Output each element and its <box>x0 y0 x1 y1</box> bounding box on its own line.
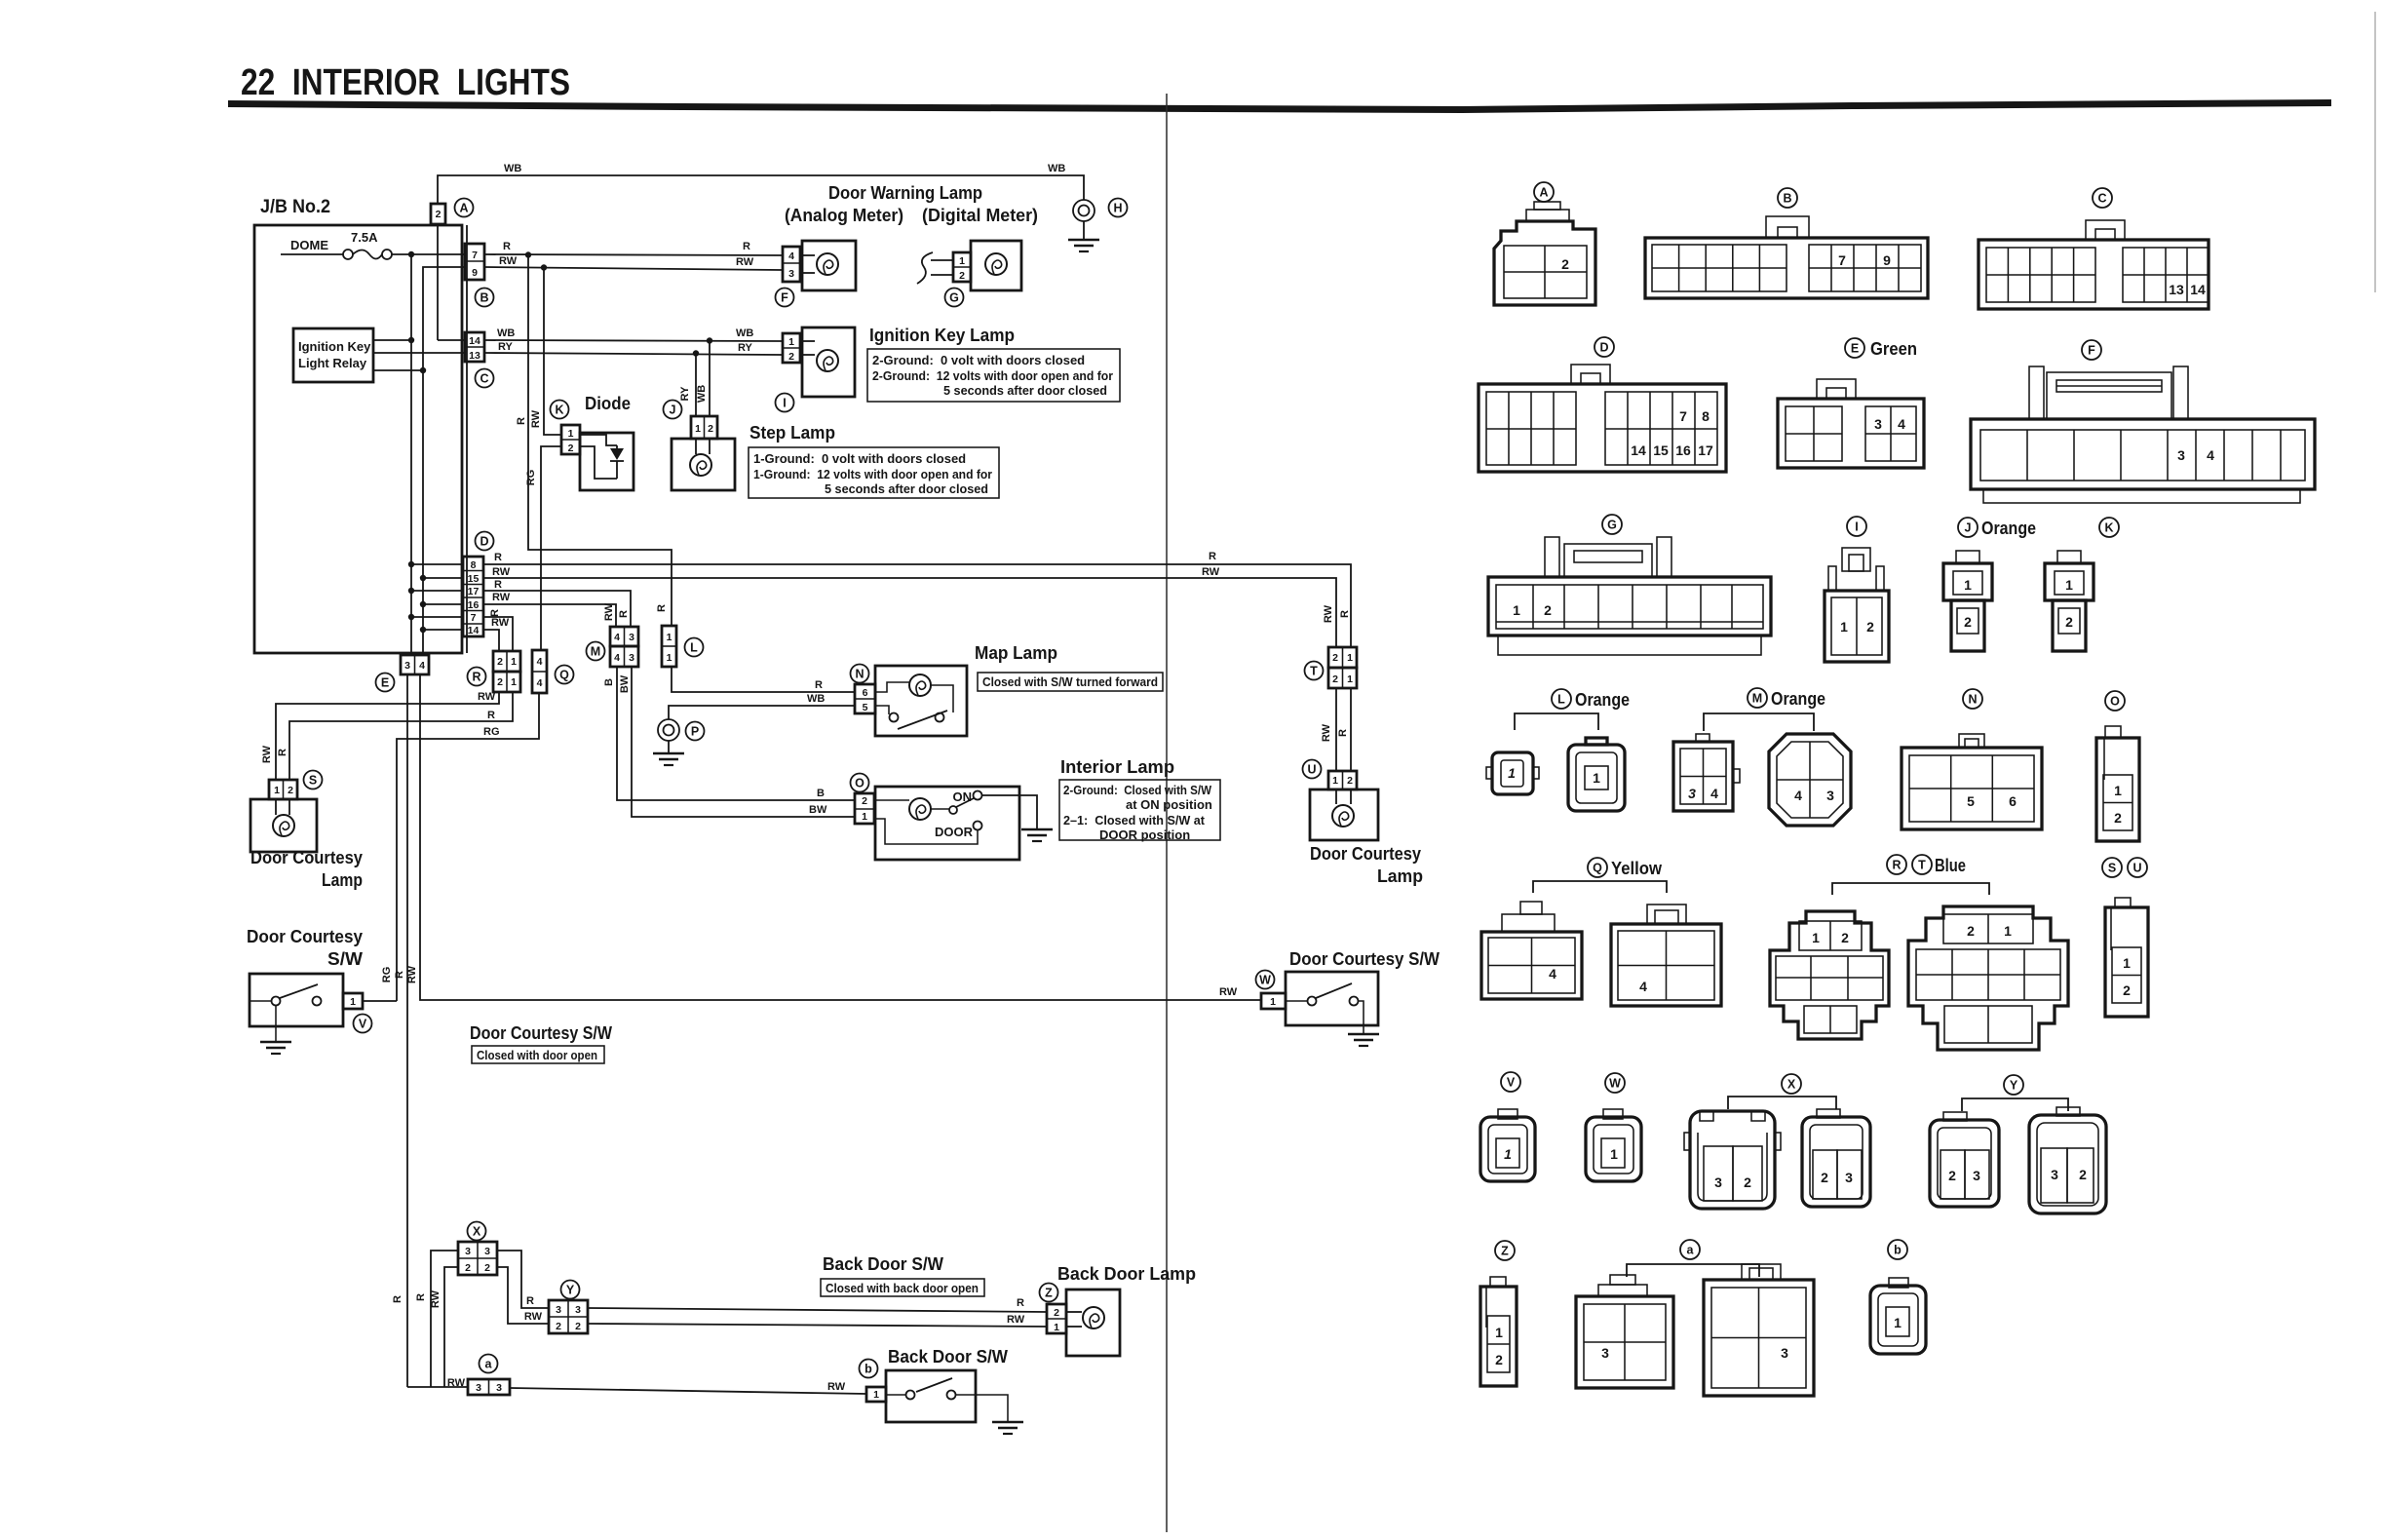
connector O (2/1) <box>851 774 875 825</box>
svg-text:S/W: S/W <box>327 949 363 969</box>
pinout X pair <box>1684 1074 1870 1209</box>
connector b pin 1 <box>860 1360 887 1403</box>
wire RW vertical from E4 turning to W switch <box>420 674 1261 1000</box>
pinout L pair <box>1486 689 1630 811</box>
svg-text:Diode: Diode <box>585 394 631 413</box>
pinout J <box>1943 518 2036 651</box>
ignition key lamp bulb box <box>800 327 855 397</box>
svg-text:1: 1 <box>511 676 517 688</box>
svg-text:4: 4 <box>1549 966 1556 982</box>
svg-text:1: 1 <box>1504 1146 1512 1162</box>
svg-text:J/B No.2: J/B No.2 <box>260 197 330 217</box>
svg-text:(Analog Meter): (Analog Meter) <box>785 206 903 225</box>
svg-text:1: 1 <box>1332 775 1338 787</box>
svg-text:22 INTERIOR LIGHTS: 22 INTERIOR LIGHTS <box>241 62 570 103</box>
svg-text:3: 3 <box>556 1304 561 1316</box>
svg-text:RW: RW <box>1323 604 1334 623</box>
svg-text:13: 13 <box>2169 282 2184 297</box>
svg-text:Back Door Lamp: Back Door Lamp <box>1057 1264 1196 1284</box>
svg-text:R: R <box>392 1295 403 1303</box>
svg-text:Y: Y <box>2010 1079 2018 1093</box>
pinout B <box>1645 188 1928 298</box>
svg-text:16: 16 <box>468 599 480 611</box>
wire vertical bus 2 inside J/B <box>423 267 465 655</box>
pinout O <box>2096 691 2139 841</box>
svg-text:2: 2 <box>1744 1174 1751 1190</box>
svg-text:RW: RW <box>447 1377 466 1389</box>
svg-text:T: T <box>1310 665 1318 678</box>
svg-text:Door Courtesy S/W: Door Courtesy S/W <box>1289 949 1440 969</box>
svg-text:2: 2 <box>1544 602 1552 618</box>
pinout b <box>1870 1240 1926 1354</box>
pinout M pair <box>1673 688 1851 826</box>
svg-text:C: C <box>2097 192 2106 206</box>
svg-text:3: 3 <box>404 660 410 672</box>
svg-text:I: I <box>783 397 786 410</box>
pinout C <box>1979 188 2209 309</box>
svg-text:Orange: Orange <box>1981 519 2036 538</box>
svg-text:Closed with S/W turned forward: Closed with S/W turned forward <box>982 674 1158 689</box>
wire X2 right to Y2 <box>497 1267 549 1324</box>
svg-text:R: R <box>487 710 495 721</box>
svg-text:2: 2 <box>288 785 293 796</box>
svg-text:1: 1 <box>511 656 517 668</box>
door courtesy lamp (left) <box>250 799 363 890</box>
svg-text:K: K <box>2104 521 2113 535</box>
svg-text:RW: RW <box>524 1311 543 1323</box>
svg-text:1-Ground: 12 volts with door: 1-Ground: 12 volts with door open and fo… <box>753 467 992 481</box>
wire RY from C13 to I2 <box>484 353 783 355</box>
svg-text:R: R <box>472 671 480 684</box>
svg-text:9: 9 <box>472 267 478 279</box>
svg-text:1: 1 <box>1894 1315 1902 1330</box>
svg-text:2: 2 <box>1561 256 1569 272</box>
info box step lamp <box>749 447 999 498</box>
wire R from D7 to R-connector <box>483 617 513 651</box>
svg-text:R: R <box>415 1293 427 1301</box>
svg-text:L: L <box>1557 693 1565 707</box>
diode D1 <box>580 433 634 490</box>
svg-text:R: R <box>494 579 502 591</box>
svg-text:2: 2 <box>1332 652 1338 664</box>
wire R from L to N6 <box>672 667 855 692</box>
svg-text:R: R <box>1337 729 1349 737</box>
svg-text:2: 2 <box>1964 614 1972 630</box>
connector U (1/2) <box>1303 760 1358 790</box>
wire R down to L connector <box>528 254 672 626</box>
svg-text:3: 3 <box>476 1382 481 1394</box>
connector N (6/5) <box>851 665 876 714</box>
node R branch <box>525 251 531 257</box>
svg-text:1: 1 <box>959 255 965 267</box>
svg-text:J: J <box>670 404 676 417</box>
connector T (2x 2/1) <box>1305 647 1358 688</box>
svg-text:R: R <box>1892 859 1901 872</box>
node RY branch to J <box>693 350 699 356</box>
svg-text:RW: RW <box>1202 566 1220 578</box>
svg-text:3: 3 <box>465 1246 471 1257</box>
svg-text:2: 2 <box>497 676 503 688</box>
svg-text:X: X <box>473 1225 481 1239</box>
svg-text:M: M <box>591 645 600 659</box>
svg-text:Closed with door open: Closed with door open <box>477 1048 597 1062</box>
svg-text:2-Ground: 0 volt with doors c: 2-Ground: 0 volt with doors closed <box>872 353 1085 367</box>
svg-text:B: B <box>480 291 488 305</box>
svg-text:7: 7 <box>1679 408 1687 424</box>
wire break brace at G <box>917 252 933 284</box>
node D8 stub <box>411 563 463 565</box>
svg-text:4: 4 <box>614 632 620 643</box>
info box interior lamp <box>1059 780 1220 842</box>
wire vertical bus 1 inside J/B <box>410 254 412 655</box>
wire WB from A down to C row 14 <box>437 224 439 340</box>
back door lamp bulb box <box>1066 1290 1120 1356</box>
svg-text:Lamp: Lamp <box>1377 866 1423 886</box>
wire WB from A to H ground <box>438 175 1084 204</box>
svg-text:14: 14 <box>468 625 480 636</box>
svg-text:2: 2 <box>2065 614 2073 630</box>
wire R from R-conn to S2 <box>289 692 513 780</box>
wire R vertical from E3 to back-door run <box>406 674 408 1387</box>
svg-text:BW: BW <box>809 804 827 816</box>
svg-text:3: 3 <box>2177 447 2185 463</box>
pinout K <box>2045 518 2119 651</box>
svg-text:2: 2 <box>1967 923 1975 939</box>
svg-text:F: F <box>2088 344 2095 358</box>
svg-text:RW: RW <box>499 255 518 267</box>
svg-text:1: 1 <box>1964 577 1972 593</box>
svg-text:WB: WB <box>807 693 825 705</box>
svg-text:RW: RW <box>430 1290 442 1308</box>
svg-text:4: 4 <box>1710 786 1718 801</box>
svg-text:Z: Z <box>1045 1287 1053 1300</box>
svg-text:1-Ground: 0 volt with doors c: 1-Ground: 0 volt with doors closed <box>753 451 966 466</box>
door warning lamp (analog) <box>800 241 856 290</box>
junction block J/B No.2 <box>254 197 467 653</box>
back door switch <box>886 1370 1008 1422</box>
wire RW from B9 to F3 <box>484 267 783 270</box>
node dome-fuse junction <box>408 251 414 257</box>
svg-text:2: 2 <box>1332 674 1338 685</box>
svg-text:Green: Green <box>1870 339 1917 359</box>
svg-text:E: E <box>381 676 389 690</box>
svg-text:1: 1 <box>568 428 574 440</box>
svg-text:Z: Z <box>1501 1245 1509 1258</box>
pinout V <box>1480 1072 1535 1181</box>
connector W pin 1 <box>1256 971 1287 1010</box>
pinout D <box>1479 337 1726 472</box>
svg-text:4: 4 <box>1794 788 1802 803</box>
svg-text:14: 14 <box>1631 443 1646 458</box>
svg-text:R: R <box>394 971 405 979</box>
connector Y (3/2 | 3/2) <box>549 1281 588 1334</box>
node D17 stub <box>411 590 463 592</box>
ground below W switch <box>1348 1034 1379 1046</box>
svg-text:(Digital Meter): (Digital Meter) <box>922 206 1038 225</box>
svg-text:2: 2 <box>575 1321 581 1332</box>
svg-text:DOME: DOME <box>290 238 328 252</box>
connector E (3/4) <box>376 655 430 692</box>
svg-text:b: b <box>864 1363 872 1376</box>
node WB branch to J <box>707 337 712 343</box>
ground H <box>1068 199 1128 252</box>
svg-text:1: 1 <box>788 336 794 348</box>
svg-text:1: 1 <box>2114 783 2122 798</box>
svg-text:WB: WB <box>696 385 708 403</box>
svg-text:15: 15 <box>468 573 480 585</box>
svg-text:1: 1 <box>1347 674 1353 685</box>
node D16 stub <box>423 603 463 605</box>
svg-text:a: a <box>1687 1244 1695 1257</box>
svg-text:1: 1 <box>1495 1325 1503 1340</box>
svg-text:RW: RW <box>478 691 496 703</box>
svg-text:B: B <box>1783 192 1791 206</box>
svg-text:1: 1 <box>1812 930 1820 945</box>
connector X (3/2 | 3/2) <box>458 1222 497 1276</box>
node D7 stub <box>411 616 463 618</box>
connector B (pins 7/9) <box>465 244 494 307</box>
svg-text:WB: WB <box>497 327 515 339</box>
svg-text:Back Door S/W: Back Door S/W <box>888 1347 1008 1367</box>
node RW branch <box>541 264 547 270</box>
connector J (1/2) <box>664 401 718 440</box>
pinout A <box>1494 182 1595 305</box>
pinout R T pair <box>1770 855 2068 1050</box>
svg-text:3: 3 <box>1781 1345 1788 1361</box>
svg-text:17: 17 <box>468 586 480 597</box>
svg-text:R: R <box>656 604 668 612</box>
connector V pin 1 <box>343 993 372 1033</box>
svg-text:W: W <box>1609 1077 1621 1091</box>
wires T to U <box>1335 688 1337 771</box>
svg-text:2: 2 <box>1347 775 1353 787</box>
svg-text:R: R <box>815 679 823 691</box>
svg-text:RY: RY <box>498 341 514 353</box>
ground P <box>653 719 705 765</box>
svg-text:RW: RW <box>261 745 273 763</box>
svg-text:WB: WB <box>504 163 521 174</box>
svg-text:4: 4 <box>1898 416 1905 432</box>
svg-text:3: 3 <box>629 632 634 643</box>
svg-text:R: R <box>516 417 527 425</box>
wire horizontal run to connector a <box>407 1386 468 1388</box>
svg-text:Door Warning Lamp: Door Warning Lamp <box>828 183 982 203</box>
svg-text:A: A <box>1539 186 1548 200</box>
connector K (1/2) <box>551 401 581 455</box>
svg-text:RG: RG <box>381 967 393 983</box>
svg-text:1: 1 <box>1593 770 1600 786</box>
connector Z (2/1) <box>1040 1284 1067 1334</box>
svg-text:RW: RW <box>492 566 511 578</box>
svg-text:2: 2 <box>708 423 713 435</box>
svg-text:17: 17 <box>1698 443 1713 458</box>
svg-text:R: R <box>526 1295 534 1307</box>
svg-text:RW: RW <box>827 1381 846 1393</box>
wire RG from Q down and left <box>397 693 539 1001</box>
connector Q (4/4) <box>532 650 574 693</box>
svg-text:D: D <box>480 535 488 549</box>
fuse DOME 7.5A <box>281 230 465 259</box>
svg-text:2: 2 <box>788 351 794 363</box>
svg-text:Q: Q <box>559 669 569 682</box>
svg-text:RW: RW <box>603 602 615 621</box>
svg-text:1: 1 <box>1840 619 1848 635</box>
svg-text:9: 9 <box>1883 252 1891 268</box>
svg-text:1: 1 <box>667 632 672 643</box>
wire R from B7 to F4 <box>484 254 783 255</box>
svg-text:8: 8 <box>1702 408 1710 424</box>
svg-text:BW: BW <box>619 674 631 693</box>
wire RW from Y to Z1 <box>588 1324 1047 1327</box>
connector I (1/2) <box>776 333 801 412</box>
connector a (3|3) <box>447 1355 510 1396</box>
svg-text:4: 4 <box>788 250 794 262</box>
svg-text:X: X <box>1787 1078 1796 1092</box>
svg-text:Ignition Key: Ignition Key <box>298 339 371 354</box>
svg-text:Map Lamp: Map Lamp <box>975 643 1057 663</box>
door warning lamp (digital) <box>971 241 1021 290</box>
svg-text:3: 3 <box>1688 786 1696 801</box>
title rule <box>228 99 2331 113</box>
svg-text:RG: RG <box>483 726 500 738</box>
map lamp box with switch <box>875 666 967 736</box>
svg-text:Y: Y <box>566 1284 575 1297</box>
svg-text:I: I <box>1855 520 1858 534</box>
svg-text:at ON position: at ON position <box>1126 797 1212 812</box>
interior lamp box with ON/DOOR switch <box>875 787 1019 860</box>
connector F (4/3) <box>776 247 801 307</box>
svg-text:5: 5 <box>1967 793 1975 809</box>
svg-text:7: 7 <box>471 612 477 624</box>
svg-text:RW: RW <box>492 592 511 603</box>
svg-text:b: b <box>1894 1244 1902 1257</box>
svg-text:Interior Lamp: Interior Lamp <box>1060 757 1174 777</box>
svg-text:4: 4 <box>1639 979 1647 994</box>
svg-text:G: G <box>1607 519 1617 532</box>
svg-text:DOOR: DOOR <box>935 825 974 839</box>
svg-text:2: 2 <box>556 1321 561 1332</box>
svg-text:7.5A: 7.5A <box>351 230 378 245</box>
pinout W <box>1586 1073 1641 1181</box>
svg-text:5 seconds after door closed: 5 seconds after door closed <box>943 383 1107 398</box>
svg-text:1: 1 <box>667 652 672 664</box>
svg-text:a: a <box>485 1358 493 1371</box>
page fold line <box>1166 94 1168 1532</box>
svg-text:6: 6 <box>2009 793 2017 809</box>
wire B from M4 to O2 <box>617 667 855 800</box>
svg-text:3: 3 <box>788 268 794 280</box>
svg-text:3: 3 <box>2051 1167 2058 1182</box>
svg-text:N: N <box>855 668 864 681</box>
wire WB from P to N5 <box>669 706 855 719</box>
svg-text:Door Courtesy: Door Courtesy <box>250 848 363 867</box>
svg-text:4: 4 <box>614 652 620 664</box>
wire RW from D14 to R-connector <box>483 630 499 651</box>
svg-text:2: 2 <box>1841 930 1849 945</box>
door courtesy switch (left) <box>250 974 343 1042</box>
svg-text:R: R <box>743 241 750 252</box>
svg-text:7: 7 <box>472 250 478 261</box>
svg-text:2: 2 <box>436 209 442 220</box>
svg-text:4: 4 <box>537 677 543 689</box>
svg-text:3: 3 <box>629 652 634 664</box>
wire RG from K2 down to Q <box>541 446 561 650</box>
svg-text:13: 13 <box>469 350 480 362</box>
svg-text:1: 1 <box>350 996 356 1008</box>
wire BW from M3 to O1 <box>632 667 855 817</box>
svg-text:2: 2 <box>1821 1170 1828 1185</box>
wire from interior lamp ON to ground <box>982 795 1037 829</box>
svg-text:M: M <box>1752 692 1762 706</box>
svg-text:Back Door S/W: Back Door S/W <box>823 1254 943 1274</box>
svg-text:Door Courtesy: Door Courtesy <box>247 927 363 946</box>
svg-text:WB: WB <box>736 327 753 339</box>
connector C (pins 14/13) <box>465 332 494 388</box>
svg-text:DOOR position: DOOR position <box>1099 828 1190 842</box>
wire RW down to diode K1 <box>544 267 561 435</box>
svg-text:16: 16 <box>1675 443 1691 458</box>
svg-text:8: 8 <box>471 559 477 571</box>
svg-text:2: 2 <box>497 656 503 668</box>
svg-text:1: 1 <box>1270 996 1276 1008</box>
svg-text:C: C <box>480 372 488 386</box>
svg-text:A: A <box>459 202 468 215</box>
svg-text:R: R <box>1017 1297 1024 1309</box>
svg-text:Step Lamp: Step Lamp <box>749 423 835 443</box>
wire X2 left down to a-run <box>444 1267 458 1387</box>
svg-text:RW: RW <box>530 409 542 428</box>
svg-text:Light Relay: Light Relay <box>298 356 367 370</box>
svg-text:U: U <box>1307 763 1316 777</box>
svg-text:D: D <box>1599 341 1608 355</box>
svg-text:O: O <box>855 777 864 790</box>
svg-text:1: 1 <box>1513 602 1520 618</box>
wire WB from C14 to I1 <box>484 340 783 341</box>
svg-text:Door Courtesy S/W: Door Courtesy S/W <box>470 1023 612 1043</box>
svg-text:15: 15 <box>1653 443 1669 458</box>
wire RW from a to b <box>510 1388 866 1394</box>
step lamp bulb box <box>672 439 735 490</box>
svg-text:R: R <box>1339 610 1351 618</box>
connector S (1/2) <box>269 771 323 800</box>
svg-text:P: P <box>691 725 699 739</box>
svg-text:R: R <box>277 749 288 756</box>
svg-text:2: 2 <box>568 443 574 454</box>
svg-text:2: 2 <box>484 1262 490 1274</box>
svg-text:RY: RY <box>738 342 753 354</box>
svg-text:ON: ON <box>953 789 973 804</box>
wire R from D8 to T <box>483 564 1351 647</box>
svg-text:Blue: Blue <box>1935 856 1966 875</box>
svg-text:Orange: Orange <box>1771 689 1825 709</box>
ground below back door switch <box>992 1422 1023 1434</box>
svg-text:B: B <box>817 788 825 799</box>
svg-text:E: E <box>1851 342 1859 356</box>
svg-text:S: S <box>2108 862 2116 875</box>
svg-text:J: J <box>1965 521 1972 535</box>
svg-text:O: O <box>2110 695 2120 709</box>
wire V1 to RG <box>363 1000 397 1002</box>
svg-text:1: 1 <box>274 785 280 796</box>
svg-text:2: 2 <box>1866 619 1874 635</box>
svg-text:2-Ground: 12 volts with door: 2-Ground: 12 volts with door open and fo… <box>872 368 1113 383</box>
node D15 stub <box>423 577 463 579</box>
svg-text:RW: RW <box>1219 986 1238 998</box>
pinout F <box>1971 340 2315 503</box>
svg-text:R: R <box>503 241 511 252</box>
svg-text:1: 1 <box>1610 1146 1618 1162</box>
svg-text:K: K <box>555 404 563 417</box>
